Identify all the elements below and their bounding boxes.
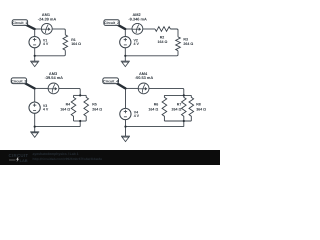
svg-text:264 Ω: 264 Ω (172, 108, 182, 112)
svg-text:R6: R6 (154, 103, 159, 107)
svg-text:-24.39 mA: -24.39 mA (38, 16, 57, 21)
svg-text:ayeshatodemphysics / Lab 1: ayeshatodemphysics / Lab 1 (33, 152, 79, 156)
svg-text:4 V: 4 V (43, 42, 49, 46)
svg-text:LAB: LAB (20, 158, 28, 163)
svg-text:4 V: 4 V (134, 114, 140, 118)
svg-text:4 V: 4 V (43, 108, 49, 112)
svg-text:164 Ω: 164 Ω (71, 42, 81, 46)
svg-text:Circuit_1: Circuit_1 (12, 21, 27, 25)
svg-text:-39.54 mA: -39.54 mA (45, 75, 64, 80)
svg-text:R2: R2 (160, 36, 165, 40)
svg-text:R8: R8 (196, 103, 201, 107)
svg-text:R5: R5 (92, 103, 97, 107)
svg-text:Circuit_2: Circuit_2 (104, 21, 119, 25)
svg-text:Circuit_4: Circuit_4 (103, 79, 118, 83)
svg-text:R7: R7 (177, 103, 182, 107)
svg-text:Circuit_3: Circuit_3 (11, 79, 26, 83)
svg-text:264 Ω: 264 Ω (92, 108, 102, 112)
svg-text:4 V: 4 V (134, 42, 140, 46)
svg-text:-50.53 mA: -50.53 mA (135, 75, 154, 80)
svg-text:R3: R3 (183, 37, 188, 41)
svg-text:http://circuitlab.com/c9926mbr: http://circuitlab.com/c9926mbr67fw6e/4kb… (33, 157, 103, 161)
svg-text:164 Ω: 164 Ω (157, 40, 167, 44)
svg-text:264 Ω: 264 Ω (183, 42, 193, 46)
svg-text:364 Ω: 364 Ω (196, 108, 206, 112)
svg-text:164 Ω: 164 Ω (60, 108, 70, 112)
svg-text:-9.346 mA: -9.346 mA (128, 16, 147, 21)
svg-text:R4: R4 (66, 103, 71, 107)
svg-text:164 Ω: 164 Ω (148, 108, 158, 112)
